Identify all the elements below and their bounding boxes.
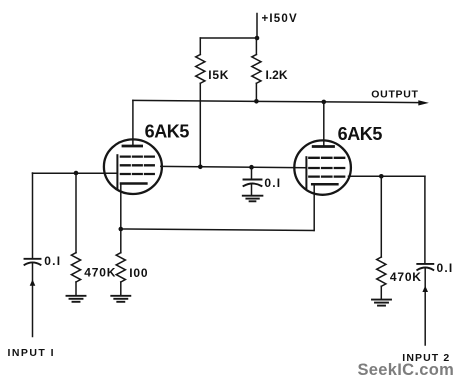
- wire input1 upper: [32, 173, 34, 258]
- U2 grid riser: [305, 157, 307, 188]
- node 470K left to grid: [74, 171, 79, 176]
- wire screen bus: [161, 166, 307, 167]
- svg-text:I5K: I5K: [208, 68, 229, 82]
- U1 cathode drop: [120, 184, 122, 230]
- node right plate to bus: [322, 100, 327, 105]
- capacitor 0.1 input2: [417, 264, 433, 270]
- wire cathode tie: [121, 229, 314, 231]
- svg-text:SeekIC.com: SeekIC.com: [358, 361, 455, 379]
- wire input1 lower: [32, 264, 34, 337]
- ground mid: [243, 196, 263, 202]
- wire output arrowhead: [418, 100, 429, 105]
- svg-text:+I50V: +I50V: [262, 13, 298, 25]
- resistor 100: [116, 229, 125, 295]
- svg-text:OUTPUT: OUTPUT: [371, 88, 418, 100]
- U1 cathode bar: [121, 182, 146, 185]
- wire top tie: [200, 37, 257, 39]
- ground 100: [111, 296, 130, 302]
- U1 plate bar: [123, 145, 142, 148]
- node cathode tee: [119, 227, 124, 232]
- U2 plate bar: [313, 145, 333, 148]
- wire +150V supply lead: [256, 14, 258, 39]
- arrowhead input2: [422, 286, 428, 292]
- svg-text:0.I: 0.I: [44, 254, 61, 268]
- wire plate bus: [133, 100, 420, 102]
- wire grid lead left: [33, 172, 118, 174]
- U2 cathode drop: [313, 184, 315, 230]
- capacitor 0.1 input1: [25, 259, 41, 265]
- wire input2 lower: [424, 269, 426, 345]
- capacitor 0.1 screen bypass: [244, 167, 262, 195]
- svg-text:470K: 470K: [84, 266, 116, 280]
- U2 grid rows: [309, 158, 344, 177]
- U1 grid riser: [116, 155, 118, 188]
- svg-text:470K: 470K: [390, 270, 422, 284]
- resistor 15K: [196, 38, 205, 167]
- U1 grid rows: [121, 157, 154, 174]
- arrowhead input1: [30, 279, 36, 285]
- node supply junction: [255, 36, 260, 41]
- svg-text:0.I: 0.I: [437, 261, 454, 275]
- wire left plate lead: [132, 100, 134, 146]
- node 15K to screen bus: [198, 165, 203, 170]
- wire input2 upper: [424, 176, 426, 263]
- resistor 470K left: [71, 173, 80, 295]
- wire grid lead right: [349, 175, 425, 177]
- resistor 470K right: [377, 176, 386, 298]
- ground 470K right: [372, 300, 391, 306]
- svg-text:I00: I00: [129, 266, 148, 280]
- resistor 1.2K: [252, 38, 261, 101]
- tube U2 6AK5 right envelope: [294, 140, 351, 194]
- ground 470K left: [67, 296, 86, 302]
- node 470K right to grid: [379, 174, 384, 179]
- svg-text:0.I: 0.I: [264, 176, 281, 190]
- svg-text:6AK5: 6AK5: [338, 124, 383, 144]
- node bypass cap to screen bus: [249, 165, 254, 170]
- svg-text:INPUT I: INPUT I: [8, 347, 56, 359]
- node 1.2K to bus: [254, 99, 259, 104]
- svg-text:I.2K: I.2K: [266, 68, 288, 82]
- svg-text:6AK5: 6AK5: [145, 121, 190, 141]
- wire right plate lead: [323, 102, 325, 147]
- tube U1 6AK5 left envelope: [104, 139, 162, 194]
- U2 cathode bar: [312, 183, 337, 186]
